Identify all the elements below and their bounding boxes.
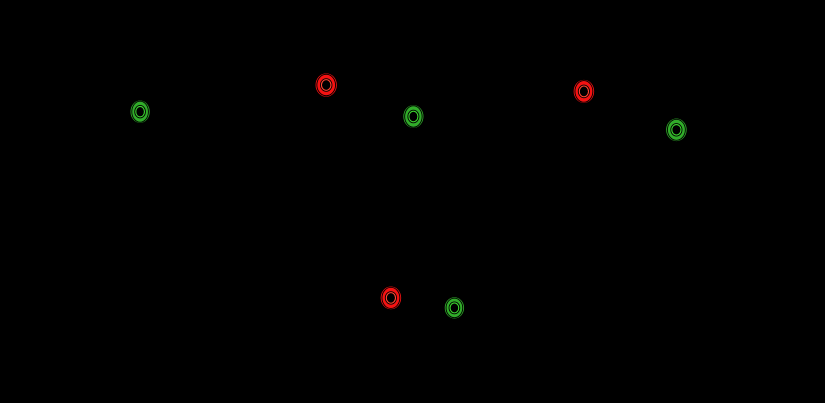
atom O7 (green ester oxygen, ester 3) <box>446 298 463 318</box>
atom O5 (green ester oxygen, ester 2) <box>667 119 685 140</box>
atom O2 (red carbonyl oxygen, ester 1) <box>317 74 336 96</box>
atom O6 (red carbonyl oxygen, ester 3) <box>382 287 400 308</box>
atom O1 (green ether oxygen, left) <box>132 101 149 122</box>
atom O4 (red carbonyl oxygen, ester 2) <box>575 81 593 103</box>
atom O3 (green ester oxygen, ester 1) <box>405 106 423 127</box>
